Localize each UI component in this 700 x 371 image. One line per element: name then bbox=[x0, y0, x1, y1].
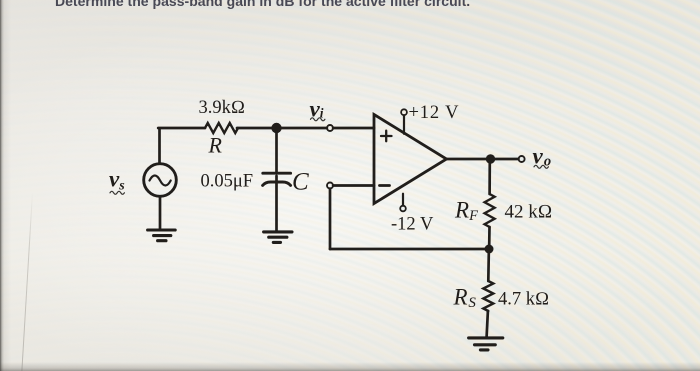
label vo bbox=[533, 144, 552, 170]
wire: feedback horizontal bbox=[330, 248, 489, 251]
-12V supply pin bbox=[400, 194, 406, 212]
wire: feedback vertical up to inverting terminal bbox=[329, 189, 332, 249]
terminal vi bbox=[327, 125, 333, 131]
ground below C bbox=[264, 232, 292, 243]
junction output node bbox=[486, 154, 495, 163]
wire: feedback node down to RS bbox=[487, 253, 490, 281]
wire: inverting terminal to op-amp bbox=[333, 184, 374, 187]
svg-text:0.05μF: 0.05μF bbox=[201, 172, 254, 192]
svg-text:RS: RS bbox=[453, 285, 477, 312]
junction node A bbox=[271, 123, 281, 133]
svg-text:4.7 kΩ: 4.7 kΩ bbox=[498, 290, 549, 310]
resistor R bbox=[205, 123, 238, 133]
svg-text:RF: RF bbox=[454, 198, 478, 225]
wire: source top vertical bbox=[158, 129, 161, 163]
source vs bbox=[144, 164, 177, 197]
svg-text:42 kΩ: 42 kΩ bbox=[505, 202, 553, 223]
svg-text:R: R bbox=[208, 133, 223, 158]
terminal inverting input port bbox=[327, 183, 333, 189]
wire: capacitor to ground bbox=[275, 176, 278, 232]
svg-text:C: C bbox=[292, 169, 309, 196]
wire: RS to ground bbox=[487, 311, 488, 337]
terminal vo bbox=[519, 156, 525, 162]
capacitor C bbox=[263, 173, 291, 185]
wire: RF to feedback node bbox=[488, 227, 491, 246]
label vi bbox=[310, 97, 325, 122]
wire: node A down to capacitor bbox=[275, 128, 278, 174]
wire: source to ground bbox=[159, 197, 162, 230]
ground below RS bbox=[469, 338, 503, 350]
op-amp U1 bbox=[374, 115, 447, 204]
wire: R to terminal vi bbox=[237, 127, 327, 130]
svg-text:+12 V: +12 V bbox=[409, 103, 460, 123]
wire: op-amp output bbox=[447, 158, 519, 161]
svg-text:vs: vs bbox=[109, 167, 125, 194]
wire: top-left horizontal to R bbox=[158, 127, 205, 130]
wire: output node down to RF bbox=[488, 160, 491, 194]
label vs bbox=[109, 167, 125, 195]
+12V supply pin bbox=[401, 109, 407, 134]
ground below source bbox=[148, 230, 176, 241]
junction feedback node bbox=[485, 245, 494, 254]
svg-text:-12 V: -12 V bbox=[391, 215, 434, 235]
title text (cropped at top) bbox=[55, 0, 700, 9]
wire: vi to op-amp noninverting input bbox=[333, 127, 374, 130]
resistor RF bbox=[485, 194, 495, 227]
svg-text:3.9kΩ: 3.9kΩ bbox=[199, 98, 246, 118]
resistor RS bbox=[483, 281, 493, 311]
